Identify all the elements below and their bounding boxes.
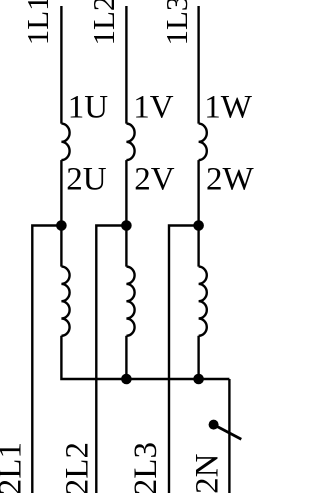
svg-text:2L3: 2L3 [128, 442, 164, 493]
switch contact dot on 2N [209, 420, 219, 430]
secondary winding coil L3 (4 bumps) [199, 267, 207, 336]
svg-text:2U: 2U [66, 162, 107, 198]
wire L1 coil bottom to bus corner [61, 336, 229, 379]
svg-text:2W: 2W [206, 162, 254, 198]
switch blade [214, 425, 242, 440]
node junction dot L1 tap [56, 220, 67, 231]
svg-text:2V: 2V [134, 162, 175, 198]
wire L2 middle segment [125, 160, 127, 267]
primary winding coil L1 (2 bumps) [61, 124, 69, 161]
svg-text:1V: 1V [133, 90, 174, 126]
wire tap L3 to 2L3 [169, 226, 199, 493]
wire L2 coil bottom to bus [125, 336, 127, 379]
wire 2N drop [228, 379, 230, 493]
secondary winding coil L2 (4 bumps) [126, 267, 134, 336]
primary winding coil L3 (2 bumps) [199, 124, 207, 161]
node junction dot L3 tap [193, 220, 204, 231]
wire 1L3 top segment [197, 6, 199, 124]
svg-text:1L1: 1L1 [20, 0, 55, 45]
wire L3 coil bottom to bus [197, 336, 199, 379]
svg-text:1L3: 1L3 [159, 0, 194, 46]
svg-text:2L2: 2L2 [60, 442, 96, 493]
node bus junction dot L2 [121, 374, 132, 385]
node junction dot L2 tap [121, 220, 132, 231]
wire 1L2 top segment [125, 6, 127, 124]
svg-text:1U: 1U [68, 90, 109, 126]
wire tap L1 to 2L1 [32, 226, 61, 493]
primary winding coil L2 (2 bumps) [126, 124, 134, 161]
wire 1L1 top segment [60, 6, 62, 124]
svg-text:1W: 1W [204, 90, 253, 126]
wire L3 middle segment [197, 160, 199, 267]
secondary winding coil L1 (4 bumps) [61, 267, 69, 336]
node bus junction dot L3 [193, 374, 204, 385]
wire tap L2 to 2L2 [96, 226, 126, 493]
wire L1 middle segment [60, 160, 62, 267]
svg-text:1L2: 1L2 [86, 0, 121, 46]
svg-text:2L1: 2L1 [0, 442, 29, 493]
svg-text:2N: 2N [190, 453, 226, 493]
